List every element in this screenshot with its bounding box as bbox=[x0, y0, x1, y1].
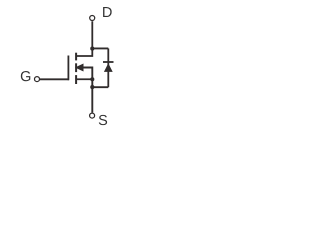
wire: diode branch top bbox=[92, 47, 108, 49]
transistor Q1: channel top segment bbox=[75, 53, 77, 61]
junction dot: source/diode bbox=[90, 85, 94, 89]
transistor Q1: gate electrode bar bbox=[67, 56, 69, 81]
wire: body lead and source wire down to S terminal bbox=[76, 68, 92, 113]
junction dot: source bar bbox=[90, 77, 94, 81]
wire: gate lead from G terminal bbox=[40, 78, 69, 80]
terminal circle D bbox=[90, 16, 95, 21]
transistor Q1: body arrow pointing to channel bbox=[75, 64, 84, 72]
diode D1: cathode bar bbox=[103, 61, 114, 63]
junction dot: drain/diode bbox=[90, 47, 94, 51]
wire: source bar from channel bottom bbox=[76, 78, 92, 80]
transistor Q1: channel middle segment bbox=[75, 63, 77, 72]
wire: drain lead from D terminal down and left to channel top bbox=[76, 21, 92, 56]
label S bbox=[99, 115, 107, 125]
label D bbox=[103, 7, 112, 17]
diode D1: anode triangle bbox=[104, 63, 113, 72]
label G bbox=[21, 71, 30, 81]
N-channel MOSFET with body diode schematic bbox=[0, 0, 174, 135]
transistor Q1: channel bottom segment bbox=[75, 75, 77, 84]
wire: diode vertical bbox=[107, 48, 109, 87]
wire: diode branch bottom bbox=[92, 86, 108, 88]
terminal circle S bbox=[90, 113, 95, 118]
terminal circle G bbox=[35, 77, 40, 82]
